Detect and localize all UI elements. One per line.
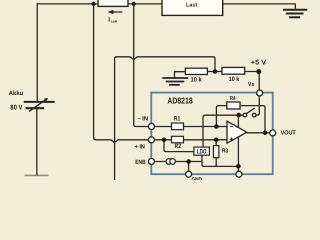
switch contact left: [243, 113, 247, 117]
wire ENB rail: [151, 161, 202, 163]
node ENB gnd: [186, 159, 191, 164]
svg-text:Akku: Akku: [9, 90, 24, 97]
node VOUT feedback: [263, 131, 268, 136]
resistor 10k left: [185, 68, 207, 74]
resistor R3 (vertical): [213, 146, 219, 158]
wire +IN node down to LDO input: [164, 140, 194, 152]
wire op-amp V- stub down to gnd node: [237, 136, 239, 171]
wire op-amp output to VOUT pin: [247, 132, 273, 134]
wire top rail from Akku to Last box: [37, 4, 162, 102]
svg-text:– IN: – IN: [137, 115, 148, 122]
pin Vs: [257, 90, 263, 96]
wire 10k to +5V node and down to Vs pin: [245, 72, 260, 91]
wire shunt right node down to -IN: [134, 4, 152, 127]
wire left ground to 10k divider row: [175, 72, 186, 78]
wire between 10k resistors: [207, 71, 222, 73]
battery Akku plates: [24, 102, 55, 108]
svg-text:+ IN: + IN: [135, 144, 146, 151]
wire supply junction left to LDO top: [203, 115, 239, 147]
node shunt left: [92, 2, 96, 6]
pin GND right: [236, 171, 242, 177]
svg-text:80 V: 80 V: [10, 105, 22, 112]
svg-text:LDO: LDO: [197, 149, 207, 156]
svg-text:ENB: ENB: [135, 159, 146, 166]
I-Lade current arrow: [108, 10, 123, 14]
wire +IN to op-amp non-inverting input: [154, 139, 227, 141]
switch lever: [246, 108, 254, 114]
pin -IN: [148, 124, 154, 130]
node +5V: [256, 69, 261, 74]
AD8218 package outline box U1: [151, 93, 272, 175]
wire op-amp V+ supply stub: [237, 115, 239, 128]
wire R4 right to output feedback drop: [240, 106, 265, 133]
pin VOUT: [270, 130, 276, 136]
wire +IN node down to R3 top: [215, 140, 217, 146]
pin GND left: [186, 171, 192, 177]
svg-text:GND: GND: [192, 177, 203, 180]
wire switch to supply junction: [239, 114, 243, 116]
pin +IN: [148, 137, 154, 143]
wire ENB junction down to GND pin: [188, 162, 190, 172]
wire divider tap: down-left long branch with hop over x=133.7: [115, 57, 215, 180]
wire shunt left node down to +IN with hop over x=114.6: [94, 4, 152, 142]
svg-text:Lade: Lade: [111, 20, 117, 24]
op-amp minus sign: [230, 125, 233, 127]
svg-text:AD8218: AD8218: [167, 96, 192, 106]
node op-amp supply: [237, 113, 242, 118]
svg-text:+5 V: +5 V: [251, 59, 267, 66]
wire Last box to top-right ground: [223, 4, 296, 9]
switch contact right: [252, 113, 256, 117]
resistor R1: [172, 123, 184, 130]
svg-text:Vs: Vs: [248, 82, 255, 88]
wire Akku negative lead down: [36, 108, 38, 175]
svg-text:VOUT: VOUT: [281, 129, 296, 136]
pin ENB: [148, 159, 154, 165]
svg-text:R3: R3: [222, 147, 229, 154]
resistor 10k right: [222, 67, 245, 74]
shunt resistor (top, I-Lade): [98, 0, 128, 6]
svg-text:10 k: 10 k: [229, 76, 240, 83]
node +IN LDO tap: [162, 138, 167, 143]
ENB jumper circles: [166, 159, 175, 165]
wire Vs pin down to switch: [256, 96, 259, 115]
node divider mid: [213, 69, 218, 74]
wire internal gnd rail from LDO bottom to gnd node: [202, 155, 238, 166]
node internal gnd: [236, 164, 241, 169]
left ground (10k divider): [162, 78, 188, 85]
svg-text:R1: R1: [174, 115, 181, 122]
svg-text:R2: R2: [175, 143, 182, 150]
svg-text:R4: R4: [230, 96, 236, 102]
Last box (load): [162, 0, 223, 15]
wire faded bottom stub of Akku return: [25, 174, 49, 176]
top-right ground: [283, 10, 307, 18]
wire -IN to op-amp inverting input: [154, 126, 227, 128]
node -IN feedback: [214, 124, 219, 129]
op-amp U1 triangle: [227, 121, 247, 143]
pin circles: [148, 90, 275, 177]
battery variable arrow: [29, 98, 48, 112]
LDO box: [194, 147, 210, 155]
svg-text:10 k: 10 k: [191, 76, 203, 83]
wire R3 bottom to gnd rail: [215, 158, 217, 167]
svg-text:Last: Last: [186, 2, 197, 8]
resistor R2: [172, 136, 184, 143]
node +IN R3 tap: [214, 138, 219, 143]
resistor R4: [227, 102, 240, 109]
op-amp plus sign: [230, 138, 233, 141]
wire feedback from -IN node up to R4 left: [216, 106, 226, 127]
node shunt right: [132, 2, 136, 6]
